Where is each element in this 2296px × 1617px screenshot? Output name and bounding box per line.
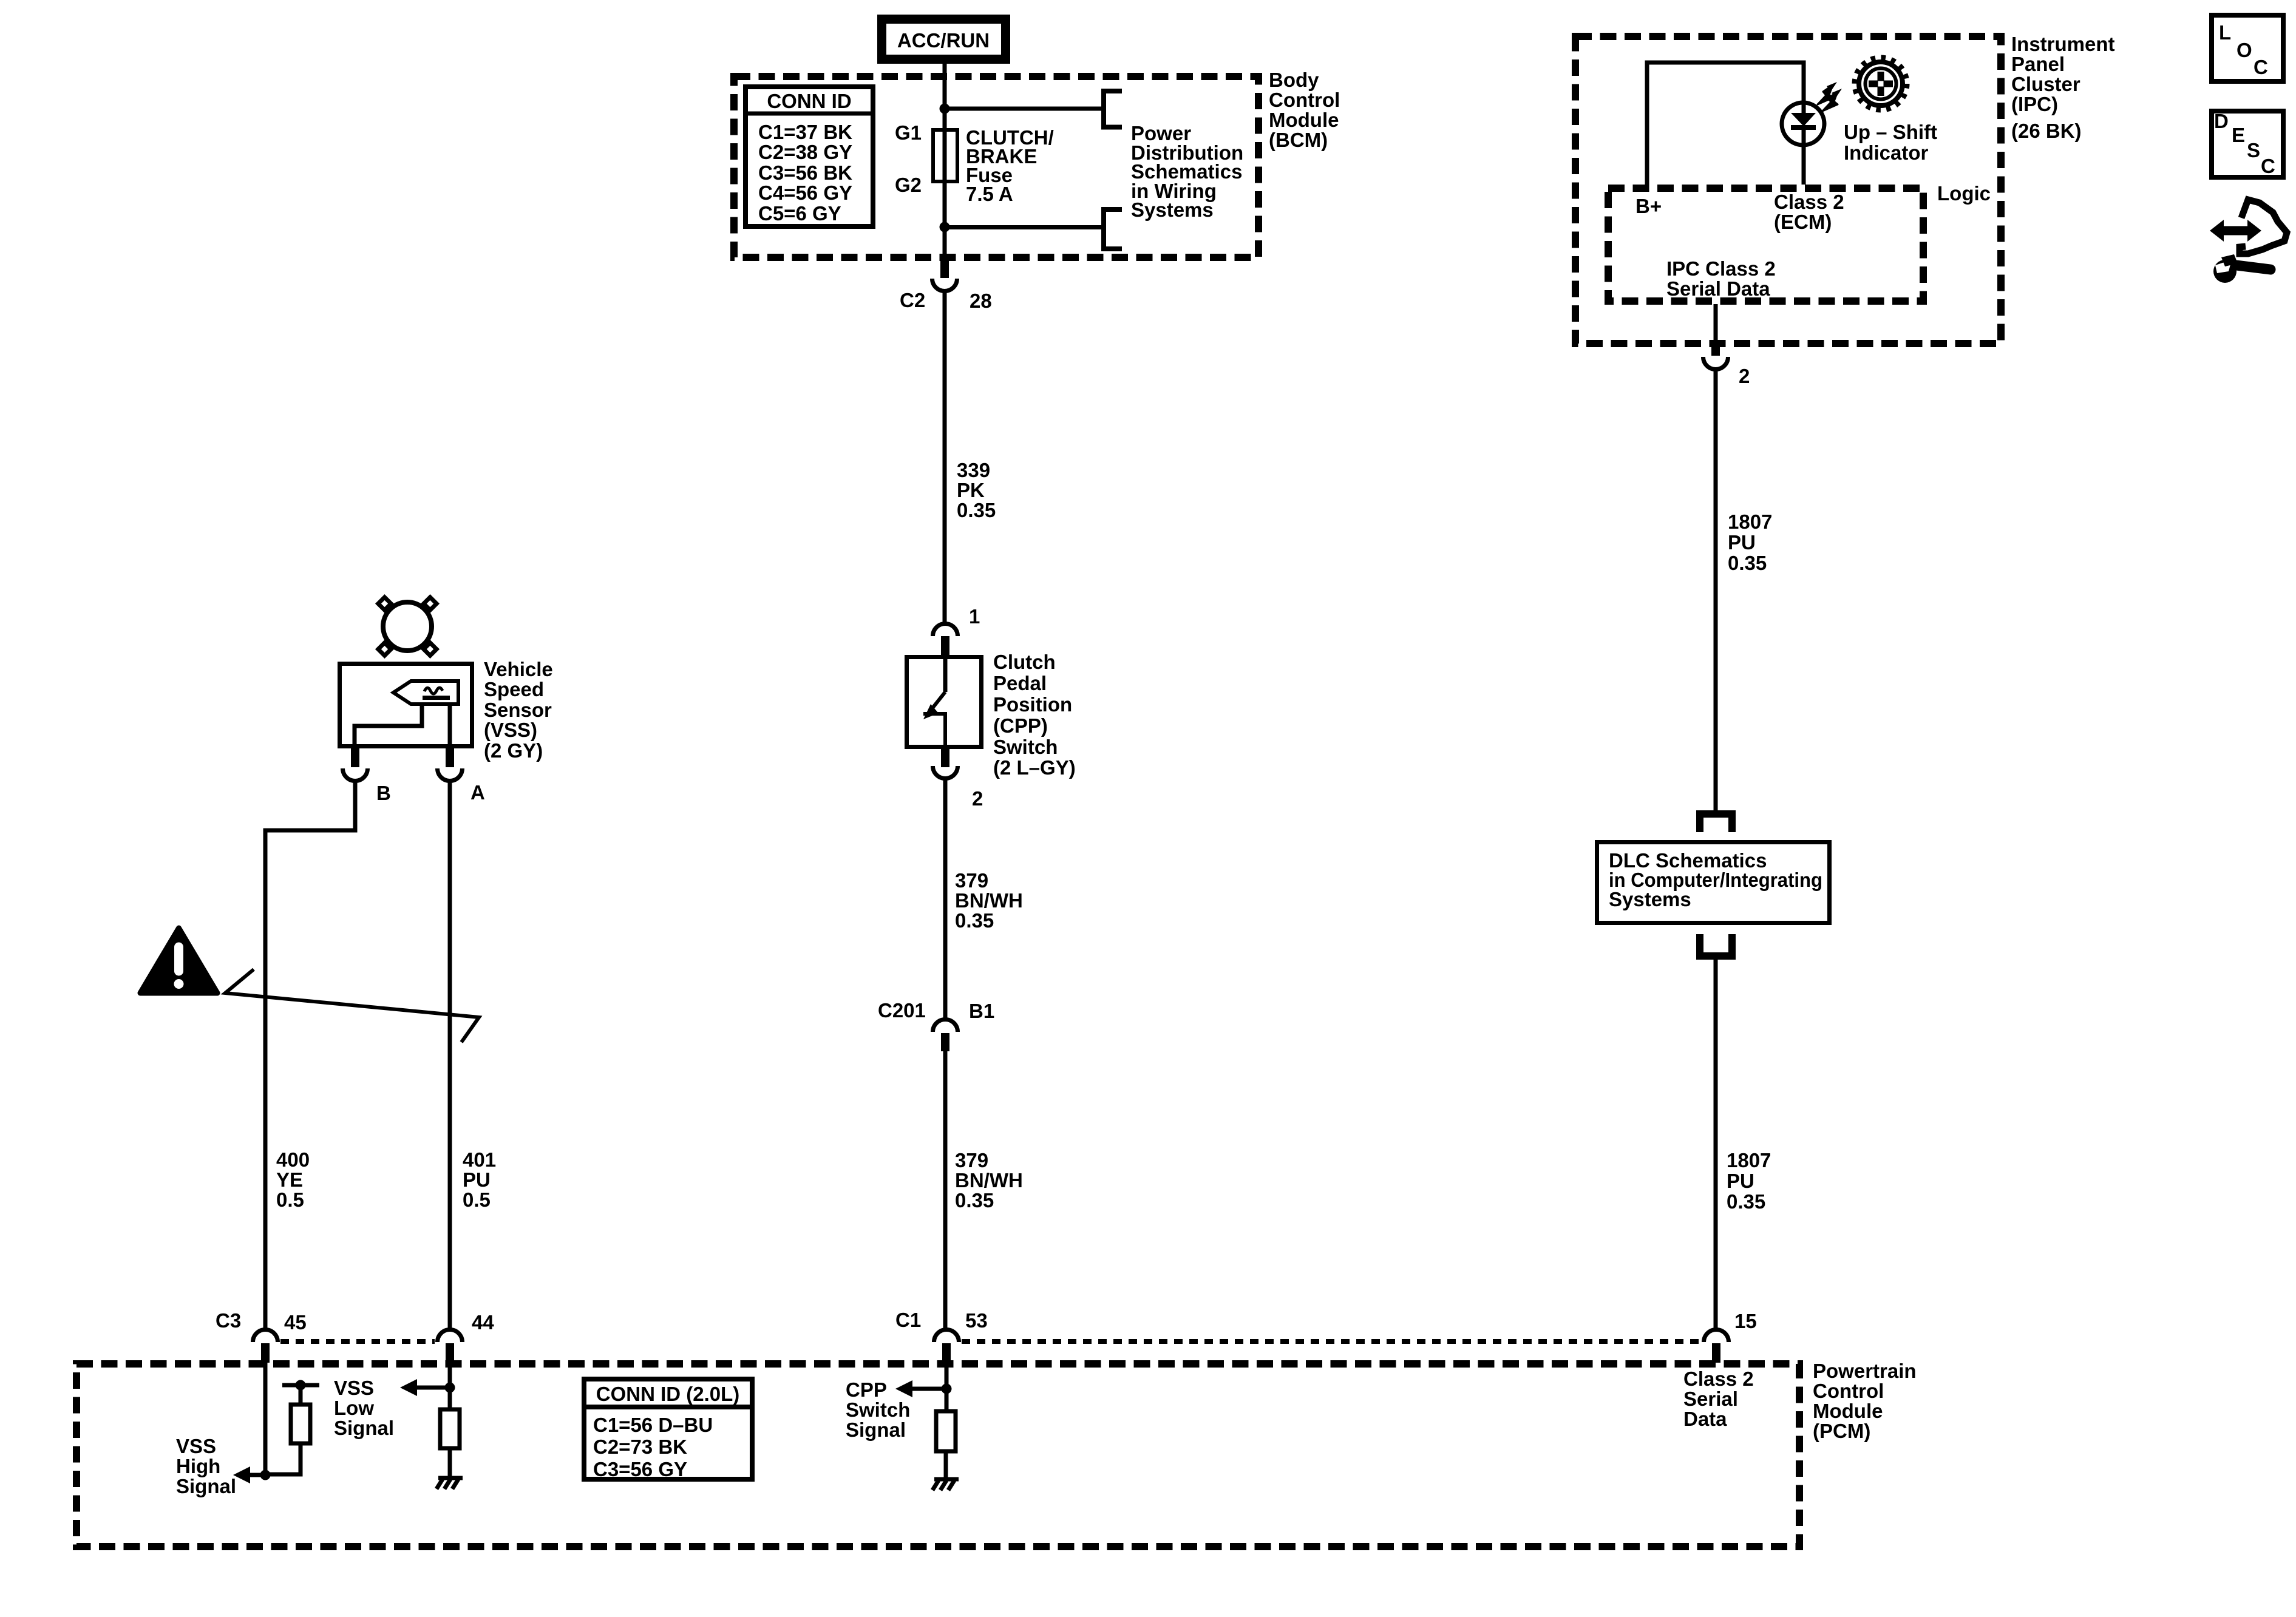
svg-text:High: High bbox=[176, 1455, 220, 1477]
wire CPP inside PCM bbox=[945, 1363, 949, 1411]
value label CLUTCH/BRAKE Fuse 7.5 A bbox=[966, 126, 1054, 205]
svg-text:0.5: 0.5 bbox=[276, 1188, 304, 1211]
warning triangle symbol bbox=[140, 928, 217, 993]
svg-text:B1: B1 bbox=[969, 1000, 994, 1022]
svg-text:C: C bbox=[2254, 56, 2268, 78]
wire label 339 PK 0.35 bbox=[957, 459, 996, 521]
svg-text:0.35: 0.35 bbox=[955, 909, 994, 932]
svg-text:Speed: Speed bbox=[484, 678, 544, 700]
connector pin B arc bbox=[343, 768, 368, 781]
svg-text:IPC Class 2: IPC Class 2 bbox=[1666, 257, 1776, 280]
svg-text:Signal: Signal bbox=[176, 1475, 236, 1497]
svg-text:53: 53 bbox=[965, 1309, 988, 1332]
label Class 2 Serial Data bbox=[1683, 1368, 1754, 1430]
svg-text:L: L bbox=[2219, 21, 2231, 44]
svg-text:Switch: Switch bbox=[846, 1398, 910, 1421]
connector C2 pin 28 arc bbox=[932, 279, 957, 291]
svg-text:0.35: 0.35 bbox=[955, 1189, 994, 1212]
svg-text:Sensor: Sensor bbox=[484, 699, 552, 721]
connector pin 15 arc bbox=[1704, 1330, 1729, 1343]
label CPP Switch Signal bbox=[846, 1378, 910, 1441]
svg-text:0.35: 0.35 bbox=[1728, 552, 1767, 574]
module box IPC (dashed) bbox=[1575, 36, 2001, 344]
wire pin2 to DLC, circuit 1807 bbox=[1714, 367, 1718, 812]
wire A to pin44, circuit 401 bbox=[448, 779, 452, 1331]
wire label 379 BN/WH 0.35 (upper) bbox=[955, 869, 1023, 932]
svg-text:Class 2: Class 2 bbox=[1683, 1368, 1754, 1390]
connector C3 pin 45 stub bbox=[261, 1343, 270, 1363]
connector pin 2 stub bbox=[941, 749, 949, 767]
wire pin2 to C201, circuit 379 bbox=[943, 777, 948, 1020]
fuse CLUTCH/BRAKE 7.5A bbox=[933, 130, 957, 181]
node junction dot 2 bbox=[940, 222, 950, 232]
label Vehicle Speed Sensor (VSS) (2 GY) bbox=[484, 658, 553, 762]
connector pin A stub bbox=[446, 748, 454, 767]
wire LED to Logic bbox=[1802, 145, 1806, 185]
svg-text:B: B bbox=[376, 782, 391, 804]
svg-text:C4=56 GY: C4=56 GY bbox=[758, 181, 852, 204]
wire junction1 to bracket1 bbox=[945, 107, 1102, 111]
svg-text:Data: Data bbox=[1683, 1408, 1727, 1430]
svg-text:G2: G2 bbox=[895, 174, 922, 196]
bracket to Power Distribution (bottom) bbox=[1104, 209, 1122, 249]
svg-text:BN/WH: BN/WH bbox=[955, 1169, 1023, 1192]
dotted harness line 45 to 44 bbox=[280, 1339, 435, 1344]
svg-text:C3=56 GY: C3=56 GY bbox=[593, 1458, 687, 1480]
svg-text:(26 BK): (26 BK) bbox=[2011, 120, 2082, 142]
svg-text:B+: B+ bbox=[1635, 195, 1662, 217]
wire VSS internal A side bbox=[448, 704, 452, 747]
connector C201 arc bbox=[933, 1020, 958, 1032]
connector pin 44 arc bbox=[438, 1330, 463, 1343]
svg-text:CONN ID (2.0L): CONN ID (2.0L) bbox=[596, 1383, 740, 1405]
arrow VSS Low Signal bbox=[400, 1379, 450, 1396]
svg-text:2: 2 bbox=[1739, 365, 1750, 387]
bracket to Power Distribution (top) bbox=[1104, 91, 1122, 127]
svg-text:O: O bbox=[2237, 39, 2252, 61]
svg-text:Signal: Signal bbox=[334, 1417, 394, 1439]
label Power Distribution Schematics in Wiring Systems bbox=[1131, 122, 1243, 221]
switch CPP box bbox=[907, 657, 982, 747]
wire label 1807 PU 0.35 (lower) bbox=[1727, 1149, 1771, 1213]
svg-text:PU: PU bbox=[1728, 531, 1756, 554]
svg-text:C2: C2 bbox=[900, 289, 925, 311]
connector C2 pin 28 stub bbox=[940, 257, 949, 278]
svg-text:15: 15 bbox=[1734, 1310, 1757, 1332]
node VSS high junction bbox=[260, 1470, 271, 1480]
svg-text:G1: G1 bbox=[895, 121, 922, 144]
connector pin 2 arc bbox=[933, 766, 958, 779]
svg-text:Cluster: Cluster bbox=[2011, 73, 2080, 95]
svg-text:45: 45 bbox=[284, 1311, 307, 1334]
connector C1 pin 53 stub bbox=[942, 1343, 951, 1363]
svg-text:CONN ID: CONN ID bbox=[767, 90, 851, 112]
wire B to pin45, circuit 400 bbox=[265, 779, 355, 1331]
svg-text:401: 401 bbox=[463, 1148, 496, 1171]
dotted harness line 53 to 15 bbox=[962, 1339, 1701, 1344]
svg-text:Serial: Serial bbox=[1683, 1388, 1738, 1410]
label VSS High Signal bbox=[176, 1435, 236, 1497]
svg-text:Up – Shift: Up – Shift bbox=[1844, 121, 1937, 143]
wire resistor to ground (CPP) bbox=[944, 1451, 948, 1479]
svg-text:A: A bbox=[470, 781, 485, 804]
off-page bracket (bottom of DLC) bbox=[1700, 934, 1732, 956]
node junction dot 1 bbox=[940, 104, 950, 114]
svg-text:C: C bbox=[2261, 155, 2275, 177]
svg-text:Indicator: Indicator bbox=[1844, 141, 1929, 164]
svg-text:400: 400 bbox=[276, 1148, 310, 1171]
label Instrument Panel Cluster (IPC) (26 BK) bbox=[2011, 33, 2115, 142]
switch CPP contact and blade bbox=[923, 657, 945, 747]
svg-text:C3: C3 bbox=[216, 1309, 241, 1332]
connector pin 1 arc bbox=[933, 624, 958, 637]
module box BCM (dashed) bbox=[734, 76, 1258, 257]
svg-text:D: D bbox=[2214, 110, 2229, 132]
wire VSS internal B side bbox=[355, 704, 422, 747]
svg-text:Low: Low bbox=[334, 1397, 374, 1419]
svg-text:Signal: Signal bbox=[846, 1419, 906, 1441]
resistor CPP pullup bbox=[936, 1411, 956, 1451]
svg-text:0.5: 0.5 bbox=[463, 1188, 491, 1211]
svg-text:0.35: 0.35 bbox=[1727, 1190, 1765, 1213]
resistor VSS low pulldown bbox=[440, 1409, 460, 1448]
svg-text:PU: PU bbox=[1727, 1170, 1754, 1192]
arrow CPP Switch Signal bbox=[895, 1380, 946, 1397]
wire resistor to ground bbox=[448, 1448, 452, 1477]
svg-text:379: 379 bbox=[955, 1149, 988, 1171]
wire junction2 to bracket2 bbox=[945, 225, 1102, 229]
svg-text:Systems: Systems bbox=[1609, 888, 1691, 910]
connector IPC pin 2 arc bbox=[1703, 357, 1728, 370]
node CPP junction bbox=[942, 1384, 952, 1394]
svg-text:Serial Data: Serial Data bbox=[1666, 277, 1770, 300]
svg-text:VSS: VSS bbox=[334, 1377, 374, 1399]
svg-text:PU: PU bbox=[463, 1168, 491, 1191]
svg-text:1: 1 bbox=[969, 605, 980, 628]
label VSS Low Signal bbox=[334, 1377, 394, 1439]
module box PCM (dashed) bbox=[76, 1364, 1799, 1547]
connector C1 pin 53 arc bbox=[934, 1330, 959, 1343]
svg-text:C1=56 D–BU: C1=56 D–BU bbox=[593, 1414, 713, 1436]
svg-text:(PCM): (PCM) bbox=[1813, 1420, 1870, 1442]
svg-text:339: 339 bbox=[957, 459, 990, 481]
svg-text:Switch: Switch bbox=[993, 736, 1058, 758]
svg-text:Pedal: Pedal bbox=[993, 672, 1047, 694]
connector pin 44 stub bbox=[446, 1343, 454, 1363]
svg-text:0.35: 0.35 bbox=[957, 499, 996, 521]
svg-text:Logic: Logic bbox=[1937, 182, 1991, 205]
wire VSS low inside PCM bbox=[448, 1363, 452, 1409]
connector C3 pin 45 arc bbox=[253, 1330, 278, 1343]
svg-text:C201: C201 bbox=[878, 999, 926, 1022]
svg-text:(CPP): (CPP) bbox=[993, 714, 1048, 737]
sensor pickup arrow symbol bbox=[393, 681, 458, 704]
svg-text:E: E bbox=[2232, 124, 2245, 146]
svg-text:(2 L–GY): (2 L–GY) bbox=[993, 756, 1076, 779]
resistor bias (VSS) bbox=[268, 1385, 310, 1474]
svg-text:Powertrain: Powertrain bbox=[1813, 1360, 1917, 1382]
svg-text:7.5 A: 7.5 A bbox=[966, 183, 1013, 205]
lightning arrows (LED light) bbox=[1818, 82, 1842, 111]
icon box DESC bbox=[2212, 110, 2283, 177]
pin label Class 2 (ECM) bbox=[1774, 191, 1844, 233]
svg-text:1807: 1807 bbox=[1728, 510, 1772, 533]
svg-text:VSS: VSS bbox=[176, 1435, 216, 1457]
svg-text:Systems: Systems bbox=[1131, 198, 1214, 221]
gear indicator icon bbox=[1855, 58, 1907, 110]
connector table CONN ID bbox=[746, 87, 873, 226]
svg-text:Body: Body bbox=[1269, 69, 1319, 91]
wire Logic to IPC pin 2 bbox=[1714, 304, 1718, 341]
ground symbol (VSS low) bbox=[436, 1478, 463, 1489]
svg-text:(VSS): (VSS) bbox=[484, 719, 537, 741]
svg-text:Control: Control bbox=[1269, 89, 1340, 111]
wire VSS high inside PCM bbox=[263, 1363, 268, 1475]
svg-text:C1=37 BK: C1=37 BK bbox=[758, 121, 852, 143]
label Up - Shift Indicator bbox=[1844, 121, 1937, 164]
svg-text:BN/WH: BN/WH bbox=[955, 889, 1023, 912]
wire label 1807 PU 0.35 (upper) bbox=[1728, 510, 1772, 574]
svg-text:ACC/RUN: ACC/RUN bbox=[897, 29, 990, 52]
svg-text:44: 44 bbox=[472, 1311, 494, 1334]
arrow VSS High Signal bbox=[233, 1466, 265, 1483]
svg-text:Instrument: Instrument bbox=[2011, 33, 2115, 55]
svg-text:Vehicle: Vehicle bbox=[484, 658, 553, 680]
svg-text:Control: Control bbox=[1813, 1380, 1884, 1402]
svg-text:C1: C1 bbox=[895, 1309, 921, 1331]
module box Logic (dashed) bbox=[1608, 188, 1923, 301]
icon box LOC bbox=[2212, 15, 2283, 81]
label IPC Class 2 Serial Data bbox=[1666, 257, 1776, 300]
svg-text:(2 GY): (2 GY) bbox=[484, 739, 543, 762]
connector table CONN ID (2.0L) bbox=[584, 1379, 752, 1480]
ground symbol (CPP) bbox=[932, 1479, 959, 1490]
svg-text:Clutch: Clutch bbox=[993, 651, 1056, 673]
LED up-shift indicator bbox=[1782, 103, 1824, 145]
svg-text:C2=38 GY: C2=38 GY bbox=[758, 141, 852, 163]
label Clutch Pedal Position (CPP) Switch (2 L-GY) bbox=[993, 651, 1076, 779]
wire DLC to pin 15, circuit 1807 bbox=[1714, 956, 1718, 1331]
svg-text:(IPC): (IPC) bbox=[2011, 93, 2058, 115]
svg-text:PK: PK bbox=[957, 479, 985, 501]
label Body Control Module (BCM) bbox=[1269, 69, 1340, 151]
svg-text:Module: Module bbox=[1269, 109, 1339, 131]
wire C201 to C1, circuit 379 bbox=[943, 1051, 948, 1331]
wire C2 to CPP pin1, circuit 339 bbox=[943, 289, 947, 622]
connector pin B stub bbox=[351, 748, 359, 767]
wire B+ to LED (top run) bbox=[1647, 63, 1804, 186]
svg-text:C3=56 BK: C3=56 BK bbox=[758, 161, 852, 184]
svg-text:C5=6 GY: C5=6 GY bbox=[758, 202, 841, 225]
svg-text:28: 28 bbox=[970, 290, 992, 312]
connector pin 15 stub bbox=[1712, 1343, 1720, 1363]
off-page bracket (top of DLC) bbox=[1700, 814, 1732, 832]
connector pin A arc bbox=[438, 768, 463, 781]
svg-text:S: S bbox=[2247, 139, 2260, 161]
icon wrench and arrows bbox=[2210, 200, 2287, 283]
svg-text:Module: Module bbox=[1813, 1400, 1883, 1422]
svg-text:C2=73 BK: C2=73 BK bbox=[593, 1436, 687, 1458]
svg-text:(ECM): (ECM) bbox=[1774, 211, 1832, 233]
svg-text:Class 2: Class 2 bbox=[1774, 191, 1844, 213]
power box ACC/RUN bbox=[882, 19, 1006, 59]
svg-text:(BCM): (BCM) bbox=[1269, 129, 1328, 151]
svg-text:2: 2 bbox=[972, 787, 983, 810]
svg-text:1807: 1807 bbox=[1727, 1149, 1771, 1171]
wire label 400 YE 0.5 bbox=[276, 1148, 310, 1211]
connector pin 1 stub bbox=[941, 636, 949, 656]
svg-text:CPP: CPP bbox=[846, 1378, 887, 1401]
sensor VSS box bbox=[340, 664, 472, 747]
svg-text:Position: Position bbox=[993, 693, 1072, 716]
wire label 379 BN/WH 0.35 (lower) bbox=[955, 1149, 1023, 1212]
svg-text:379: 379 bbox=[955, 869, 988, 892]
connector IPC pin 2 stub bbox=[1711, 340, 1720, 356]
sensor rotor symbol (gear circle) bbox=[378, 597, 436, 656]
svg-text:Panel: Panel bbox=[2011, 53, 2065, 75]
wire ACC/RUN to BCM junction bbox=[943, 64, 947, 261]
node VSS low junction bbox=[445, 1383, 455, 1393]
wire label 401 PU 0.5 bbox=[463, 1148, 496, 1211]
reference box DLC Schematics bbox=[1597, 842, 1830, 923]
twisted pair crossing line bbox=[225, 969, 479, 1042]
connector C201 stub bbox=[941, 1033, 949, 1051]
svg-text:YE: YE bbox=[276, 1168, 303, 1191]
node bias bar with junction bbox=[282, 1380, 319, 1391]
label Powertrain Control Module (PCM) bbox=[1813, 1360, 1917, 1442]
